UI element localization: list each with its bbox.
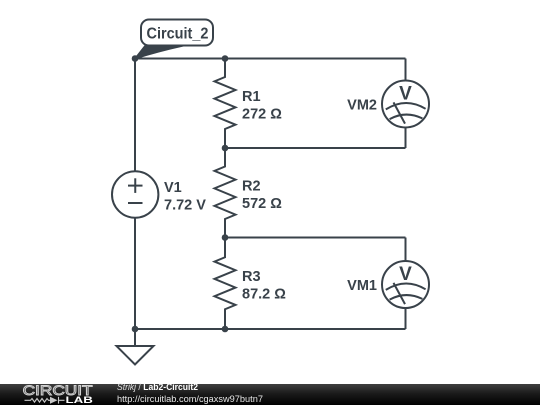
svg-text:R3: R3: [242, 269, 261, 285]
svg-text:7.72 V: 7.72 V: [164, 198, 206, 214]
svg-text:LAB: LAB: [66, 395, 94, 405]
svg-text:V: V: [399, 84, 412, 105]
svg-text:VM1: VM1: [347, 278, 377, 294]
svg-text:R1: R1: [242, 89, 261, 105]
svg-text:V1: V1: [164, 180, 182, 196]
svg-text:http://circuitlab.com/cgaxsw97: http://circuitlab.com/cgaxsw97butn7: [117, 394, 263, 404]
svg-text:Circuit_2: Circuit_2: [147, 26, 209, 43]
svg-text:V: V: [399, 264, 412, 285]
svg-text:272 Ω: 272 Ω: [242, 107, 282, 123]
svg-text:572 Ω: 572 Ω: [242, 196, 282, 212]
svg-text:Strikj / Lab2-Circuit2: Strikj / Lab2-Circuit2: [117, 382, 198, 392]
svg-text:VM2: VM2: [347, 98, 377, 114]
svg-text:R2: R2: [242, 179, 261, 195]
svg-text:87.2 Ω: 87.2 Ω: [242, 287, 286, 303]
